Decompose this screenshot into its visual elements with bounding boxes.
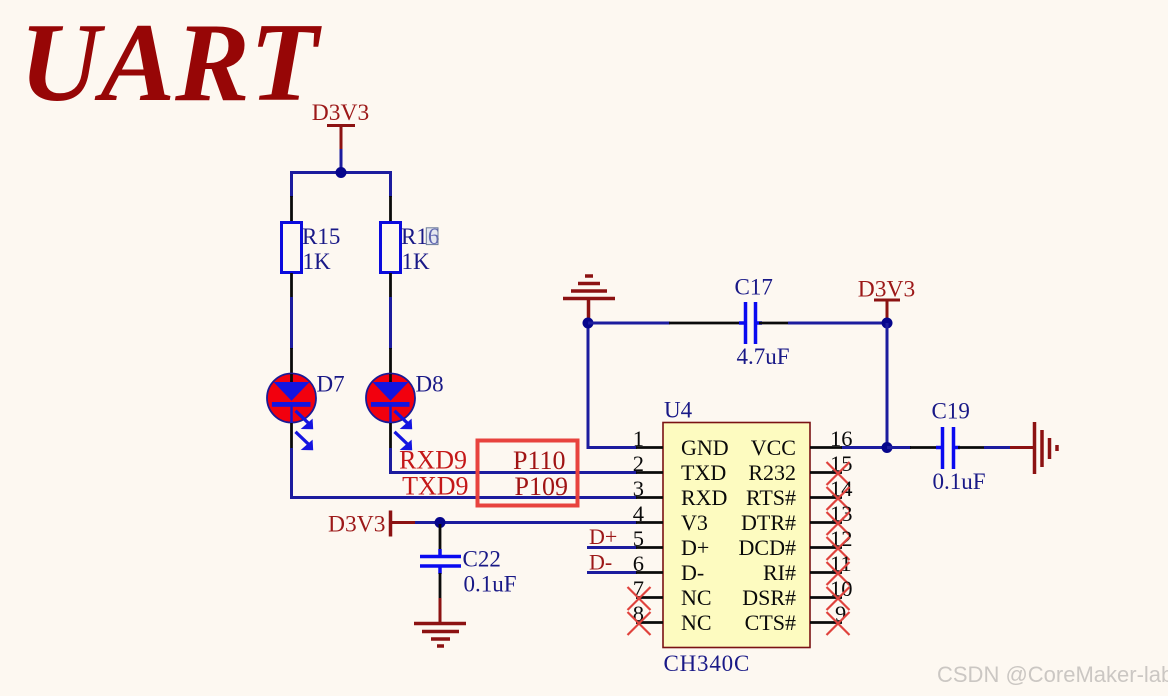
wire R15 to D7 xyxy=(290,297,293,349)
svg-text:U4: U4 xyxy=(664,398,693,423)
wire net D+ xyxy=(587,546,637,549)
svg-text:DCD#: DCD# xyxy=(739,535,796,560)
junction dot VCC xyxy=(882,442,893,453)
wire net D- xyxy=(587,571,637,574)
junction dot V3 xyxy=(435,517,446,528)
ground (top, left of C17) xyxy=(563,276,615,320)
svg-text:P109: P109 xyxy=(515,472,568,501)
wire C17 right to D3V3 junction xyxy=(788,322,887,325)
highlight box P110/P109 xyxy=(478,441,578,506)
svg-text:0.1uF: 0.1uF xyxy=(464,572,517,597)
pin 4 V3 xyxy=(633,501,708,535)
svg-text:RXD9: RXD9 xyxy=(399,446,467,475)
wire C19 to ground right xyxy=(984,446,1011,449)
wire horizontal top bus xyxy=(292,173,391,198)
junction dot D3V3/C17 xyxy=(882,318,893,329)
svg-text:GND: GND xyxy=(681,435,729,460)
svg-text:R15: R15 xyxy=(302,224,340,249)
power port D3V3 (top right) xyxy=(858,277,915,321)
svg-text:TXD9: TXD9 xyxy=(402,472,468,501)
wire C22 to ground xyxy=(439,598,442,624)
svg-text:CH340C: CH340C xyxy=(664,651,751,676)
svg-text:6: 6 xyxy=(633,551,644,576)
junction dot ground net xyxy=(583,318,594,329)
wire pin lead C17 left xyxy=(669,322,742,325)
svg-text:0.1uF: 0.1uF xyxy=(933,469,986,494)
svg-text:4.7uF: 4.7uF xyxy=(737,344,790,369)
IC U4 CH340C body xyxy=(663,398,810,677)
pin 5 D+ xyxy=(633,526,710,560)
ground (below C22) xyxy=(414,624,466,647)
svg-text:C19: C19 xyxy=(932,399,970,424)
svg-text:D3V3: D3V3 xyxy=(312,100,369,126)
pin 3 RXD xyxy=(633,476,728,510)
wire ground junction to C17 left xyxy=(588,322,670,325)
pin 12 DCD# xyxy=(739,526,853,560)
wire net RXD9 (D8 to pin2) xyxy=(391,448,638,473)
junction dot top xyxy=(336,167,347,178)
svg-text:NC: NC xyxy=(681,585,712,610)
svg-text:DSR#: DSR# xyxy=(742,585,796,610)
power port D3V3 (top, above R15/R16) xyxy=(312,100,369,150)
ground (right of C19, sideways) xyxy=(1035,422,1058,474)
wire net TXD9 (D7 to pin3) xyxy=(292,448,638,498)
pin 6 D- xyxy=(633,551,704,585)
svg-text:D-: D- xyxy=(589,550,612,575)
pin 15 R232 xyxy=(748,451,852,485)
pin 16 VCC xyxy=(751,426,853,460)
pin 13 DTR# xyxy=(741,501,853,535)
svg-text:DTR#: DTR# xyxy=(741,510,796,535)
pin 14 RTS# xyxy=(746,476,853,510)
svg-text:TXD: TXD xyxy=(681,460,726,485)
capacitor C17 xyxy=(735,275,790,370)
svg-text:D3V3: D3V3 xyxy=(328,512,385,538)
wire D3V3 junction down to VCC xyxy=(886,323,889,448)
capacitor C22 xyxy=(420,524,517,599)
svg-text:D+: D+ xyxy=(589,524,617,549)
pin 9 CTS# xyxy=(745,601,850,635)
wire pin lead D7 bottom xyxy=(290,423,293,449)
svg-text:R232: R232 xyxy=(748,460,796,485)
pin 11 RI# xyxy=(763,551,852,585)
pin 2 TXD xyxy=(633,451,726,485)
svg-text:4: 4 xyxy=(633,501,644,526)
wire pin lead R15 top xyxy=(290,196,293,222)
wire pin lead D8 top xyxy=(389,348,392,374)
wire pin lead R16 bottom xyxy=(389,273,392,298)
power port D3V3 (left of C22) xyxy=(328,511,416,538)
pin 10 DSR# xyxy=(742,576,852,610)
svg-text:D-: D- xyxy=(681,560,704,585)
wire pin lead D7 top xyxy=(290,348,293,374)
wire pin lead C19 left xyxy=(910,446,938,449)
pin 7 NC xyxy=(628,576,712,610)
svg-text:CSDN @CoreMaker-lab: CSDN @CoreMaker-lab xyxy=(937,662,1168,687)
resistor R16 xyxy=(381,223,440,275)
svg-text:3: 3 xyxy=(633,476,644,501)
wire net V3 (D3V3 to pin4) xyxy=(415,521,637,524)
svg-text:NC: NC xyxy=(681,610,712,635)
svg-text:D7: D7 xyxy=(317,372,345,397)
wire pin lead C17 right xyxy=(759,322,789,325)
wire R16 to D8 xyxy=(389,297,392,349)
svg-text:5: 5 xyxy=(633,526,644,551)
svg-text:C22: C22 xyxy=(463,547,501,572)
wire ground lead right xyxy=(1010,446,1035,449)
svg-text:VCC: VCC xyxy=(751,435,796,460)
wire pin lead R16 top xyxy=(389,196,392,222)
wire pin lead R15 bottom xyxy=(290,273,293,298)
wire pin lead C19 right xyxy=(958,446,985,449)
LED D8 xyxy=(366,372,444,451)
svg-text:RI#: RI# xyxy=(763,560,796,585)
wire from D3V3 to junction xyxy=(340,149,343,173)
svg-text:1K: 1K xyxy=(303,249,332,274)
LED D7 xyxy=(267,372,345,451)
svg-text:C17: C17 xyxy=(735,275,773,300)
wire junction to C19 xyxy=(887,446,911,449)
wire pin lead D8 bottom xyxy=(389,423,392,449)
svg-text:P110: P110 xyxy=(513,446,566,475)
svg-text:CTS#: CTS# xyxy=(745,610,796,635)
svg-text:1K: 1K xyxy=(402,249,431,274)
svg-text:2: 2 xyxy=(633,451,644,476)
svg-text:V3: V3 xyxy=(681,510,708,535)
resistor R15 xyxy=(282,223,341,275)
svg-text:D+: D+ xyxy=(681,535,709,560)
svg-text:D8: D8 xyxy=(416,372,444,397)
pin 1 GND xyxy=(633,426,729,460)
wire VCC net (pin16 to junction) xyxy=(841,446,887,449)
wire ground net down to pin1 xyxy=(588,323,637,448)
capacitor C19 xyxy=(932,399,986,495)
svg-text:RTS#: RTS# xyxy=(746,485,796,510)
svg-text:RXD: RXD xyxy=(681,485,727,510)
svg-text:1: 1 xyxy=(633,426,644,451)
svg-text:16: 16 xyxy=(830,426,853,451)
svg-text:UART: UART xyxy=(20,1,323,125)
pin 8 NC xyxy=(628,601,712,635)
